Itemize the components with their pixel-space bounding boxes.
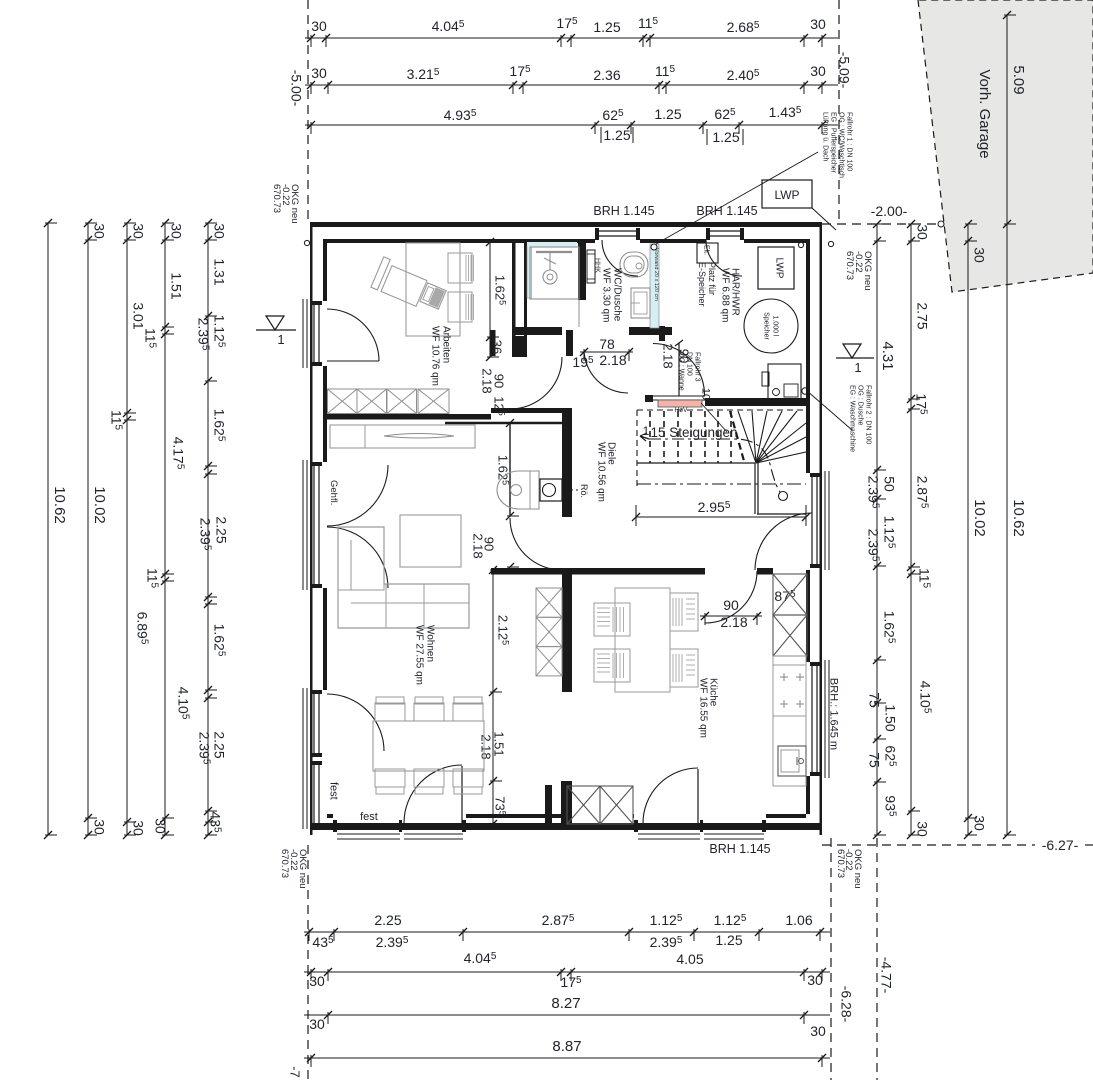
svg-text:-5.09-: -5.09- bbox=[836, 52, 852, 89]
svg-text:4.05: 4.05 bbox=[676, 951, 703, 967]
LWP leader bbox=[812, 208, 836, 230]
dining chairs top row bbox=[375, 703, 405, 721]
window sub-dimension 1.25 left bbox=[600, 127, 602, 143]
wall V4 below kitchen opening bbox=[561, 781, 572, 825]
svg-text:2.75: 2.75 bbox=[914, 302, 930, 329]
svg-text:HHK: HHK bbox=[594, 258, 601, 273]
svg-text:1.06: 1.06 bbox=[785, 912, 812, 928]
window sub-dimension 1.25 right bbox=[706, 129, 708, 145]
svg-text:30: 30 bbox=[971, 815, 987, 831]
svg-text:2.18: 2.18 bbox=[661, 343, 676, 368]
svg-text:30: 30 bbox=[914, 821, 930, 837]
stair bottom edge bbox=[757, 513, 806, 515]
svg-text:3.01: 3.01 bbox=[130, 302, 146, 329]
niche left wall line bbox=[509, 422, 511, 516]
top dimension chain row 2 bbox=[305, 84, 838, 86]
kitchen chairs left bbox=[594, 603, 630, 636]
door arc O4 bbox=[327, 694, 384, 751]
svg-text:LWP: LWP bbox=[774, 258, 785, 279]
left chain inner 1.31 / 1.12 / 1.62 / 2.25 bbox=[207, 223, 209, 835]
window door O1 Arbeiten bbox=[313, 301, 315, 366]
svg-text:-7: -7 bbox=[288, 1066, 303, 1078]
exterior wall top inner line bbox=[327, 239, 595, 243]
svg-text:8.27: 8.27 bbox=[551, 995, 580, 1012]
svg-text:E-Speicher: E-Speicher bbox=[697, 262, 707, 307]
svg-text:Arbeiten: Arbeiten bbox=[441, 326, 452, 363]
svg-text:Lüftung ü. Dach: Lüftung ü. Dach bbox=[822, 112, 829, 162]
wall V3 Wohnen/Kueche bbox=[562, 568, 572, 692]
svg-text:2.25: 2.25 bbox=[374, 912, 401, 928]
svg-text:DN 100: DN 100 bbox=[686, 352, 693, 376]
svg-text:Speicher: Speicher bbox=[763, 312, 770, 340]
svg-text:10.62: 10.62 bbox=[1010, 499, 1027, 537]
window door O2 Wohnen upper leaf bbox=[313, 462, 315, 588]
svg-text:30: 30 bbox=[810, 63, 826, 79]
right chain 4.31 segments bbox=[876, 224, 878, 835]
svg-text:WF 10.76 qm: WF 10.76 qm bbox=[430, 326, 441, 386]
niche top wall bbox=[491, 408, 562, 413]
svg-text:10.02: 10.02 bbox=[91, 486, 108, 524]
svg-text:WF 16.55 qm: WF 16.55 qm bbox=[698, 678, 709, 738]
Arbeiten bottom wall bbox=[323, 414, 491, 420]
svg-text:30: 30 bbox=[152, 818, 168, 834]
shelf crossed Wohnen bbox=[536, 588, 562, 617]
fixed window O3 fest bbox=[313, 761, 315, 827]
stair treads dashed bbox=[649, 411, 651, 463]
svg-text:BRH 1.145: BRH 1.145 bbox=[593, 204, 654, 218]
svg-text:30: 30 bbox=[810, 1023, 826, 1039]
door arc kitchen 90 bbox=[705, 571, 757, 623]
WC right wall segment bbox=[629, 327, 672, 335]
svg-text:EG : Waschmaschine: EG : Waschmaschine bbox=[849, 385, 856, 452]
left chain 1.51 / 4.17 / 4.10 bbox=[164, 223, 166, 835]
dashed line top right -2.00- bbox=[822, 223, 941, 225]
svg-text:30: 30 bbox=[211, 223, 227, 239]
svg-text:-4.77-: -4.77- bbox=[878, 957, 894, 994]
svg-text:WF 3.30 qm: WF 3.30 qm bbox=[601, 268, 612, 322]
svg-text:1.25: 1.25 bbox=[603, 127, 630, 143]
HWR door leaf dim line bbox=[678, 343, 680, 396]
desk chair bbox=[420, 283, 446, 309]
svg-text:OG : WC/Waschtisch: OG : WC/Waschtisch bbox=[838, 112, 845, 178]
door arc O2b bbox=[327, 527, 388, 588]
svg-text:10.02: 10.02 bbox=[971, 499, 988, 537]
toilet bbox=[620, 252, 648, 277]
section marker 1 right bbox=[836, 357, 874, 359]
svg-text:30: 30 bbox=[130, 223, 146, 239]
washbasin Diele niche bbox=[497, 471, 539, 509]
bottom dimension chain row 4 bbox=[304, 1057, 830, 1059]
exterior wall right inner line bbox=[806, 239, 810, 473]
svg-text:2.18: 2.18 bbox=[720, 614, 747, 630]
kitchen tall cabinet crossed bbox=[773, 574, 807, 615]
door arc WC 78 bbox=[584, 349, 628, 393]
top dimension chain row 3 bbox=[305, 124, 838, 126]
chair 2 Arbeiten bbox=[448, 292, 472, 322]
wall pier 19.5 WC door bbox=[566, 330, 573, 356]
garage area (Vorh. Garage) bbox=[918, 0, 1093, 292]
svg-text:1.50: 1.50 bbox=[882, 704, 898, 731]
stair mid landing line bbox=[637, 462, 755, 464]
svg-text:30: 30 bbox=[130, 820, 146, 836]
svg-text:1.25: 1.25 bbox=[654, 106, 681, 122]
exterior wall left outer line bbox=[310, 222, 313, 835]
svg-text:BRH.: 1.645 m: BRH.: 1.645 m bbox=[827, 678, 839, 750]
door arc R1 bbox=[755, 513, 812, 570]
svg-text:2.18: 2.18 bbox=[471, 533, 486, 558]
svg-text:Vorwand 20 x 120 cm: Vorwand 20 x 120 cm bbox=[653, 248, 659, 301]
stair arrow bbox=[640, 433, 649, 441]
dining table kitchen bbox=[615, 588, 670, 692]
survey point top left bbox=[304, 240, 309, 245]
svg-text:10.62: 10.62 bbox=[51, 486, 68, 524]
stair outline dashed bbox=[636, 410, 638, 486]
svg-text:1.000 l: 1.000 l bbox=[772, 315, 779, 336]
survey point inner top right bbox=[798, 242, 803, 247]
svg-text:Wohnen: Wohnen bbox=[425, 625, 436, 662]
svg-text:5.09: 5.09 bbox=[1010, 65, 1027, 94]
garage dimension line 5.09 bbox=[1006, 15, 1008, 224]
kitchen sink bbox=[778, 746, 806, 776]
sofa L-shape bbox=[338, 527, 469, 628]
radiator HHK bbox=[587, 250, 595, 283]
lower chain line in Wohnen bbox=[492, 568, 494, 824]
exterior wall bottom inner line bbox=[327, 814, 333, 818]
svg-text:1.25: 1.25 bbox=[593, 19, 620, 35]
dashed property line left -5.00- bbox=[307, 0, 309, 222]
svg-text:15 Steigungen: 15 Steigungen bbox=[650, 425, 737, 440]
dashed line bottom left bbox=[307, 845, 309, 1080]
kitchen door dimension 90/2.18 bbox=[700, 615, 762, 617]
svg-text:10: 10 bbox=[699, 388, 711, 400]
Fallrohr 2 leader bbox=[806, 390, 852, 430]
svg-text:1.25: 1.25 bbox=[712, 129, 739, 145]
svg-text:670.73: 670.73 bbox=[279, 849, 290, 878]
svg-text:30: 30 bbox=[311, 18, 327, 34]
section marker 1 left bbox=[256, 329, 296, 331]
door arc Wohnen 90 bbox=[510, 518, 562, 570]
kitchen top wall W3 bbox=[491, 568, 705, 575]
dashed property line right -5.09- bbox=[838, 0, 840, 222]
svg-text:2.18: 2.18 bbox=[479, 734, 494, 759]
washbasin WC bbox=[631, 288, 650, 318]
svg-text:1: 1 bbox=[277, 332, 284, 347]
buffer tank 1000l Speicher bbox=[744, 299, 798, 353]
stair cut dash-dot line bbox=[637, 483, 806, 485]
Vorwand blue left strip bbox=[527, 246, 532, 298]
window W1 sash arc bbox=[602, 240, 638, 276]
sideboard with TV bbox=[330, 425, 475, 448]
svg-text:WC/Dusche: WC/Dusche bbox=[612, 268, 623, 322]
svg-text:OG : Dusche: OG : Dusche bbox=[857, 385, 864, 426]
svg-text:30: 30 bbox=[807, 972, 823, 988]
terrace window-door B1 Wohnen bbox=[333, 823, 466, 825]
door arc HWR 90 bbox=[653, 344, 705, 396]
dashed line bottom right 1 bbox=[830, 838, 832, 1080]
kitchen chairs right bbox=[670, 593, 698, 631]
svg-text:WF 27.55 qm: WF 27.55 qm bbox=[414, 625, 425, 685]
svg-text:WF 6.88 qm: WF 6.88 qm bbox=[720, 268, 731, 322]
washing machine bbox=[768, 364, 801, 399]
dashed line bottom -6.27- bbox=[822, 844, 1035, 846]
Elt. box bbox=[697, 243, 718, 263]
stair dimension 2.95 bbox=[636, 516, 806, 518]
svg-text:EG : Pufferspeicher: EG : Pufferspeicher bbox=[830, 112, 837, 174]
interior wall V1 Arbeiten/WC bbox=[512, 242, 516, 357]
window W1 top (WC/Dusche) BRH 1.145 bbox=[595, 230, 640, 232]
dining chairs bottom row bbox=[375, 769, 405, 787]
right chain 2.75 / 2.87 / 4.10 bbox=[910, 224, 912, 835]
svg-text:2.18: 2.18 bbox=[480, 368, 495, 393]
small wall box HWR bbox=[762, 372, 769, 386]
svg-text:-2.00-: -2.00- bbox=[871, 203, 908, 219]
svg-text:1: 1 bbox=[854, 360, 861, 375]
svg-text:Fallrohr 1 : DN 100: Fallrohr 1 : DN 100 bbox=[846, 112, 853, 171]
svg-text:-5.00-: -5.00- bbox=[288, 70, 304, 107]
kitchen counter right bbox=[773, 656, 806, 786]
left chain 3.01 / 6.89 bbox=[126, 223, 128, 835]
svg-text:30: 30 bbox=[91, 819, 107, 835]
svg-text:75: 75 bbox=[866, 692, 882, 708]
svg-text:2.25: 2.25 bbox=[211, 731, 227, 758]
Vorwand blue right strip bbox=[650, 244, 659, 328]
door arc B3 bbox=[643, 768, 698, 823]
LWP unit bbox=[758, 247, 794, 289]
svg-text:Fallrohr 3: Fallrohr 3 bbox=[694, 352, 701, 382]
door arc lobby 90 bbox=[510, 357, 562, 409]
shower head symbol bbox=[543, 270, 557, 284]
svg-text:90: 90 bbox=[723, 597, 739, 613]
svg-text:30: 30 bbox=[971, 247, 987, 263]
cabinet row Arbeiten crossed bbox=[328, 389, 358, 414]
svg-text:HzV: HzV bbox=[674, 407, 688, 414]
stair walking line bbox=[649, 439, 780, 492]
left chain 10.02 bbox=[87, 223, 89, 835]
svg-text:50: 50 bbox=[881, 476, 897, 492]
svg-text:8.87: 8.87 bbox=[552, 1038, 581, 1055]
exterior wall top outer line bbox=[311, 222, 822, 227]
shower tray bbox=[530, 247, 579, 299]
window door O4 Wohnen lower bbox=[313, 690, 315, 757]
LWP callout box bbox=[762, 180, 812, 208]
door leaf B1 bbox=[461, 766, 463, 823]
radiator Roe bbox=[540, 479, 562, 501]
svg-text:1.31: 1.31 bbox=[211, 258, 227, 285]
V1 chain line bbox=[489, 242, 491, 357]
svg-text:LWP: LWP bbox=[774, 188, 799, 202]
window R2 kitchen BRH 1.645 bbox=[811, 662, 813, 776]
door arc O2a bbox=[327, 465, 388, 526]
work table Arbeiten bbox=[406, 243, 460, 336]
svg-text:fest: fest bbox=[327, 782, 339, 800]
WC bottom wall W2a bbox=[513, 327, 562, 335]
Fallrohr 1 leader bbox=[656, 152, 818, 244]
svg-text:1.25: 1.25 bbox=[715, 932, 742, 948]
exterior wall right outer line bbox=[820, 222, 823, 835]
stair winder post bbox=[754, 463, 756, 514]
door leaf B3 bbox=[697, 769, 699, 823]
svg-text:4.31: 4.31 bbox=[879, 341, 896, 370]
chair 1 Arbeiten bbox=[448, 253, 472, 283]
window W2 sash arc bbox=[706, 240, 742, 276]
svg-text:30: 30 bbox=[311, 65, 327, 81]
svg-text:OG : Wanne: OG : Wanne bbox=[678, 352, 685, 391]
door arc O1 bbox=[327, 309, 379, 361]
desk rotated bbox=[371, 257, 429, 307]
lobby bottom wall right piece / HWR wall bbox=[705, 398, 806, 406]
svg-text:Fallrohr 2 : DN 100: Fallrohr 2 : DN 100 bbox=[865, 385, 872, 444]
exterior wall bottom outer line bbox=[311, 823, 822, 830]
kitchen low cabinet crossed bottom bbox=[567, 786, 600, 824]
svg-text:30: 30 bbox=[168, 223, 184, 239]
HzV heating manifold bbox=[653, 395, 705, 397]
cooktop crosses bbox=[780, 676, 788, 678]
svg-text:2.18: 2.18 bbox=[599, 352, 626, 368]
lobby bottom wall left piece bbox=[645, 395, 653, 402]
svg-text:Platz für: Platz für bbox=[707, 262, 717, 295]
Wohnen door dimension ticks bbox=[509, 415, 511, 567]
svg-text:2.25: 2.25 bbox=[213, 516, 229, 543]
svg-text:BRH 1.145: BRH 1.145 bbox=[709, 842, 770, 856]
svg-text:1: 1 bbox=[643, 424, 650, 438]
svg-text:36: 36 bbox=[490, 340, 505, 354]
survey point top right bbox=[828, 241, 833, 246]
wall V2 left of stair bbox=[562, 408, 572, 517]
Fallrohr 3 leader bbox=[701, 403, 727, 432]
bottom dimension chain row 3 bbox=[304, 1014, 830, 1016]
stair thick dashed tread bbox=[730, 411, 744, 461]
svg-text:1.51: 1.51 bbox=[168, 272, 184, 299]
svg-text:30: 30 bbox=[309, 973, 325, 989]
svg-text:2.36: 2.36 bbox=[593, 67, 620, 83]
terrace door B3 Kueche bbox=[634, 823, 766, 825]
top dimension chain row 1 bbox=[305, 37, 838, 39]
WC door dimension 78/2.18 bbox=[580, 351, 633, 353]
svg-text:30: 30 bbox=[309, 1016, 325, 1032]
svg-text:WF 10.56 qm: WF 10.56 qm bbox=[596, 442, 607, 502]
right chain 10.62 bbox=[1006, 224, 1008, 835]
dining table Wohnen bbox=[373, 721, 484, 771]
left chain 10.62 bbox=[47, 223, 49, 835]
Roe leader dashed bbox=[562, 489, 578, 491]
svg-text:78: 78 bbox=[599, 336, 615, 352]
dashed line bottom right 2 -4.77- bbox=[876, 838, 878, 1080]
floor drain circle bbox=[802, 388, 808, 394]
kitchen wall spur bottom bbox=[545, 785, 552, 823]
svg-text:fest: fest bbox=[360, 811, 378, 823]
svg-text:Elt.: Elt. bbox=[703, 245, 710, 255]
wall pier left of lobby door bbox=[490, 330, 496, 356]
svg-text:670.73: 670.73 bbox=[835, 849, 846, 878]
exterior wall left inner line bbox=[323, 239, 327, 301]
bottom dimension chain row 2 bbox=[304, 971, 830, 973]
kitchen wall pier right of door bbox=[757, 568, 773, 575]
svg-text:30: 30 bbox=[810, 16, 826, 32]
coffee table bbox=[400, 515, 461, 567]
bottom dimension chain row 1 bbox=[304, 931, 830, 933]
window W2 top (HAR/HWR) BRH 1.145 bbox=[706, 230, 744, 232]
window door R1 stair hall bbox=[811, 473, 813, 568]
svg-text:Vorh. Garage: Vorh. Garage bbox=[976, 69, 993, 158]
stair winder treads bbox=[738, 411, 756, 463]
svg-text:Rö.: Rö. bbox=[579, 484, 589, 498]
shower divider wall bbox=[578, 242, 586, 300]
svg-text:670.73: 670.73 bbox=[844, 251, 855, 280]
svg-text:670.73: 670.73 bbox=[271, 184, 282, 213]
door arc B1 bbox=[404, 765, 462, 823]
right chain 10.02 bbox=[967, 224, 969, 835]
svg-text:30: 30 bbox=[91, 223, 107, 239]
svg-text:-6.28-: -6.28- bbox=[838, 986, 854, 1023]
svg-text:-6.27-: -6.27- bbox=[1042, 837, 1079, 853]
svg-text:75: 75 bbox=[866, 752, 882, 768]
svg-text:30: 30 bbox=[914, 224, 930, 240]
svg-text:Gehfl.: Gehfl. bbox=[328, 480, 339, 505]
